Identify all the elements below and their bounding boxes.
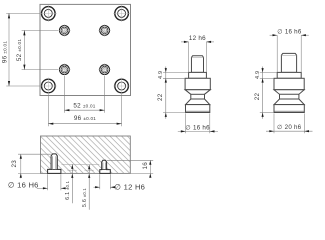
dim dia12 H6 label [94, 174, 116, 189]
small hole BR centerlines [98, 63, 111, 76]
pin3 flange [274, 78, 304, 89]
dim 16 right of section [107, 160, 153, 177]
pin2 neck [185, 90, 210, 105]
pin3 collar [277, 72, 301, 78]
corner hole TR [115, 7, 129, 21]
corner hole BL [42, 79, 56, 93]
svg-text:22: 22 [157, 93, 164, 101]
plate outline [40, 4, 131, 95]
corner hole BL centerlines [40, 78, 57, 96]
depth stub left [68, 169, 77, 171]
small hole TR centerlines [98, 24, 111, 37]
corner hole TL [42, 7, 56, 21]
dim dia16h6 top of right pin [270, 35, 309, 72]
svg-text:4.9: 4.9 [158, 71, 164, 79]
corner hole BR centerlines [113, 78, 130, 96]
dim dia16h6 bottom of middle pin [178, 113, 218, 133]
pin2 chamfer line [191, 57, 203, 59]
dim 96 bottom [48, 95, 121, 127]
dim dia20h6 bottom of right pin [266, 113, 313, 133]
svg-text:4.9: 4.9 [255, 71, 261, 79]
dim 6.1 depth [71, 164, 73, 203]
svg-text:52 ±0.01: 52 ±0.01 [16, 39, 23, 61]
pin3 base [274, 105, 304, 113]
dim 96 left [6, 13, 40, 86]
hole 16H6 (left stud cavity) [48, 154, 61, 174]
hole 12H6 (right stud cavity) [100, 160, 111, 173]
svg-text:22: 22 [254, 93, 261, 101]
dim 52 left [22, 30, 58, 69]
small hole BL centerlines [58, 63, 71, 76]
svg-text:∅ 16 h6: ∅ 16 h6 [185, 124, 210, 131]
pin2 collar [189, 72, 207, 78]
corner hole TR centerlines [113, 5, 130, 22]
svg-text:23: 23 [11, 160, 18, 168]
dim 4.9 / 22 left of middle pin [165, 67, 167, 119]
svg-text:52 ±0.01: 52 ±0.01 [73, 102, 95, 109]
small hole BR [100, 65, 110, 75]
svg-text:96 ±0.01: 96 ±0.01 [1, 41, 8, 63]
pin3 chamfer line [281, 54, 296, 56]
pin2 base [186, 105, 210, 113]
svg-text:∅ 20 h6: ∅ 20 h6 [277, 124, 302, 131]
depth stub right [85, 169, 94, 171]
section block hatched [41, 136, 131, 173]
dim 52 bottom [64, 76, 104, 113]
pin3 top cylinder [281, 53, 296, 72]
dim 12h6 top of middle pin [181, 42, 214, 72]
dim 4.9 / 22 left of right pin [262, 67, 264, 119]
small hole TL [60, 26, 70, 36]
dim dia16 H6 label [37, 174, 68, 190]
dim 5.6 depth [88, 165, 90, 210]
corner hole TL centerlines [40, 5, 57, 22]
pin3 waist lines [280, 93, 299, 95]
svg-text:∅ 12 H6: ∅ 12 H6 [114, 182, 145, 191]
pin2 top cylinder [191, 56, 203, 73]
svg-text:16: 16 [142, 162, 149, 170]
pin2 flange [185, 78, 210, 89]
pin2 waist lines [191, 93, 205, 95]
small hole TL centerlines [58, 24, 71, 37]
small hole TR [100, 26, 110, 36]
svg-text:12 h6: 12 h6 [189, 35, 206, 42]
svg-text:96 ±0.01: 96 ±0.01 [74, 115, 96, 122]
internal depth line [62, 163, 100, 165]
pin3 neck [274, 90, 304, 105]
small hole BL [60, 65, 70, 75]
svg-text:∅ 16 h6: ∅ 16 h6 [277, 28, 302, 35]
svg-text:∅ 16 H6: ∅ 16 H6 [8, 181, 39, 190]
dim 23 [18, 154, 51, 178]
corner hole BR [115, 79, 129, 93]
